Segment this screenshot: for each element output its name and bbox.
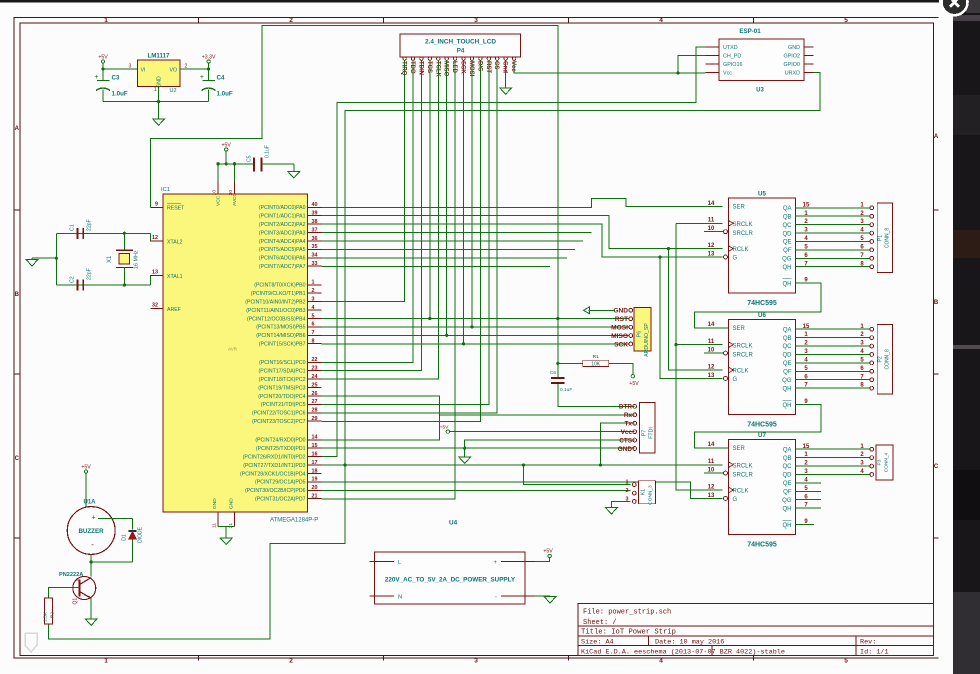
- svg-text:2.4_INCH_TOUCH_LCD: 2.4_INCH_TOUCH_LCD: [425, 39, 496, 46]
- svg-text:(PCINT20/TDO)PC4: (PCINT20/TDO)PC4: [258, 394, 305, 400]
- power flag +5V (MCU supply): [222, 142, 232, 164]
- svg-text:(PCINT19/TMS)PC3: (PCINT19/TMS)PC3: [258, 385, 305, 391]
- svg-text:TIRQ: TIRQ: [401, 61, 407, 76]
- svg-text:4: 4: [312, 305, 315, 311]
- svg-text:U1A: U1A: [84, 500, 97, 506]
- svg-text:MISO: MISO: [611, 333, 628, 340]
- svg-text:74HC595: 74HC595: [747, 541, 777, 548]
- svg-text:20: 20: [312, 485, 318, 491]
- ground (U1): [220, 538, 232, 545]
- svg-text:(PCINT28/XCK1/OC1B)PD4: (PCINT28/XCK1/OC1B)PD4: [240, 471, 306, 477]
- svg-text:(PCINT7/ADC7)PA7: (PCINT7/ADC7)PA7: [259, 264, 306, 270]
- svg-text:A: A: [934, 134, 939, 140]
- svg-text:R1: R1: [593, 354, 599, 360]
- svg-text:1: 1: [154, 87, 157, 93]
- svg-text:P1: P1: [878, 235, 884, 241]
- svg-text:0.1uF: 0.1uF: [560, 387, 572, 393]
- svg-text:RCLK: RCLK: [733, 488, 749, 494]
- svg-text:11: 11: [212, 523, 218, 528]
- svg-text:BUZZER: BUZZER: [78, 528, 104, 535]
- svg-text:P2: P2: [878, 356, 884, 362]
- svg-text:QE: QE: [783, 240, 792, 246]
- wire buzzer minus node: [90, 554, 133, 576]
- connector P2 CONN_8: [870, 324, 893, 394]
- svg-text:U3: U3: [756, 88, 764, 94]
- wire LCD TCS: [428, 60, 431, 320]
- svg-text:Rx: Rx: [624, 412, 633, 419]
- svg-text:27: 27: [312, 399, 318, 405]
- svg-text:(PCINT21/TDI)PC5: (PCINT21/TDI)PC5: [261, 402, 306, 408]
- svg-text:U2: U2: [170, 88, 177, 94]
- svg-text:12: 12: [708, 364, 715, 370]
- wire supply minus output: [535, 595, 550, 597]
- svg-text:TDO: TDO: [409, 61, 415, 74]
- IC U1 ATMEGA1284P-P body: [161, 187, 318, 524]
- svg-text:RCLK: RCLK: [733, 368, 749, 374]
- svg-text:Vcc: Vcc: [621, 429, 633, 436]
- svg-text:CTS: CTS: [619, 437, 633, 444]
- connector P6 ARDUINO_SP: [629, 308, 651, 357]
- wire Q1 emitter ground: [90, 599, 92, 619]
- svg-text:1: 1: [104, 17, 108, 24]
- svg-text:11: 11: [708, 459, 715, 465]
- wires P2 bank outputs: [796, 329, 870, 388]
- svg-text:D1: D1: [122, 534, 128, 541]
- buzzer U1A: [67, 500, 115, 555]
- wire MISO row PB6: [322, 334, 630, 336]
- capacitor C6 0.1uF (reset): [550, 370, 572, 393]
- wire PD1 to FTDI GND: [322, 447, 635, 450]
- svg-text:17: 17: [312, 460, 318, 466]
- svg-text:QH: QH: [783, 386, 792, 392]
- svg-text:(PCINT4/ADC4)PA4: (PCINT4/ADC4)PA4: [259, 239, 306, 245]
- svg-text:13: 13: [152, 270, 158, 276]
- svg-text:VCC: VCC: [216, 195, 222, 206]
- svg-text:13: 13: [708, 251, 715, 257]
- svg-text:B: B: [934, 300, 939, 306]
- crystal X1 16 MHz: [107, 233, 140, 285]
- svg-text:5: 5: [844, 17, 848, 24]
- svg-text:U6: U6: [758, 312, 766, 319]
- svg-text:Vcc: Vcc: [510, 61, 516, 72]
- svg-text:SRCLR: SRCLR: [733, 231, 754, 237]
- svg-text:(PCINT0/ADC0)PA0: (PCINT0/ADC0)PA0: [259, 205, 306, 211]
- svg-text:MOSI: MOSI: [611, 324, 628, 331]
- svg-text:22pF: 22pF: [87, 219, 93, 231]
- svg-text:33: 33: [312, 261, 318, 267]
- svg-text:PN2222A: PN2222A: [59, 572, 83, 578]
- svg-text:QH: QH: [783, 523, 792, 529]
- svg-text:(PCINT1/ADC1)PA1: (PCINT1/ADC1)PA1: [259, 214, 306, 220]
- svg-text:Rev:: Rev:: [860, 639, 876, 647]
- capacitor C1 22pF: [70, 219, 93, 239]
- svg-text:-: -: [91, 540, 94, 549]
- svg-text:MISO: MISO: [443, 61, 449, 77]
- resistor R1 10K: [583, 354, 633, 375]
- svg-text:(PCINT26/RXD1/INT0)PD2: (PCINT26/RXD1/INT0)PD2: [243, 454, 306, 460]
- wire PA0 to U5 SER: [322, 199, 723, 208]
- pin names U5 outputs: [782, 206, 792, 271]
- svg-text:14: 14: [708, 201, 715, 207]
- svg-text:QA: QA: [783, 206, 792, 212]
- svg-text:SER: SER: [733, 446, 746, 452]
- pin numbers U1 right side: [312, 202, 318, 499]
- connector K1 CONN_3: [632, 481, 655, 505]
- svg-text:16: 16: [312, 451, 318, 457]
- power flag +5V (FTDI Vcc): [440, 425, 635, 434]
- wire LCD TDO: [322, 60, 414, 362]
- svg-text:SRCLK: SRCLK: [733, 463, 753, 469]
- svg-text:RCLK: RCLK: [733, 247, 749, 253]
- svg-text:15: 15: [803, 202, 810, 208]
- svg-text:39: 39: [312, 211, 318, 217]
- svg-text:GND: GND: [613, 308, 628, 315]
- svg-text:RESET: RESET: [167, 206, 185, 212]
- svg-text:9: 9: [155, 202, 158, 208]
- wire regulator input: [101, 67, 137, 70]
- pin stubs U1 top and bottom: [212, 182, 235, 529]
- svg-text:12: 12: [152, 235, 158, 241]
- top window bar: [0, 0, 939, 3]
- svg-text:19: 19: [312, 477, 318, 483]
- svg-text:10: 10: [212, 190, 218, 196]
- capacitor C3 1.0uF: [94, 69, 127, 102]
- svg-text:1.0uF: 1.0uF: [112, 91, 128, 98]
- svg-text:(PCINT2/ADC2)PA2: (PCINT2/ADC2)PA2: [259, 222, 306, 228]
- svg-text:2: 2: [312, 288, 315, 294]
- svg-text:11: 11: [708, 218, 715, 224]
- svg-text:VO: VO: [170, 68, 178, 74]
- svg-text:13: 13: [708, 373, 715, 379]
- svg-text:10: 10: [708, 226, 715, 232]
- wire LCD Vcc to ESP Vcc: [514, 60, 705, 73]
- svg-text:QG: QG: [782, 378, 792, 384]
- svg-text:(PCINT30/OC2B/ICP)PD6: (PCINT30/OC2B/ICP)PD6: [245, 488, 306, 494]
- wire buzzer plus to diode: [98, 518, 133, 529]
- wire PA3 row: [322, 232, 592, 234]
- svg-text:UTXD: UTXD: [723, 45, 738, 51]
- svg-text:(PCINT11/AIN1/OC0)PB3: (PCINT11/AIN1/OC0)PB3: [246, 308, 305, 314]
- pin names U1 port C: [252, 360, 306, 425]
- wire LCD CS: [322, 60, 498, 413]
- svg-text:74HC595: 74HC595: [747, 300, 777, 307]
- svg-text:10K: 10K: [591, 362, 601, 368]
- pin numbers K1: [626, 480, 629, 503]
- transistor Q1 PN2222A: [59, 572, 96, 605]
- svg-text:K1: K1: [641, 489, 647, 495]
- connector P4 2.4_INCH_TOUCH_LCD: [400, 34, 521, 60]
- svg-text:ESP-01: ESP-01: [739, 28, 761, 35]
- svg-text:16 MHz: 16 MHz: [134, 250, 140, 269]
- svg-text:IC1: IC1: [161, 187, 170, 193]
- svg-text:QE: QE: [783, 361, 792, 367]
- diode D1: [122, 526, 144, 562]
- svg-text:C: C: [15, 456, 20, 462]
- svg-text:G: G: [733, 497, 738, 503]
- svg-text:GPIO0: GPIO0: [784, 62, 800, 68]
- power flag +5V (buzzer): [81, 464, 91, 507]
- svg-text:QF: QF: [783, 248, 792, 254]
- wire U6 QH' cascade to U7 SER: [695, 405, 821, 448]
- svg-text:B: B: [15, 292, 20, 298]
- svg-text:11: 11: [708, 339, 715, 345]
- wire PA4 row: [322, 240, 584, 242]
- wire PA5 row: [322, 248, 576, 250]
- svg-text:2: 2: [289, 17, 293, 24]
- wire LCD RST: [322, 60, 489, 404]
- svg-text:1: 1: [626, 480, 629, 486]
- pin numbers U6 left: [708, 322, 809, 405]
- svg-text:C5: C5: [247, 155, 253, 162]
- svg-text:G: G: [733, 255, 738, 261]
- svg-text:C4: C4: [217, 75, 225, 82]
- wire SCK row PB7: [322, 343, 630, 345]
- svg-text:+5V: +5V: [629, 381, 639, 387]
- svg-text:10: 10: [708, 348, 715, 354]
- svg-text:DIODE: DIODE: [138, 526, 144, 543]
- svg-text:QG: QG: [782, 498, 792, 504]
- svg-text:QF: QF: [783, 490, 792, 496]
- wire PC4 to FTDI Rx: [322, 396, 635, 440]
- svg-text:15: 15: [803, 324, 810, 330]
- wire K1 pin1 drop: [523, 465, 630, 485]
- svg-text:31: 31: [228, 523, 234, 529]
- ground (Q1): [85, 619, 97, 626]
- ground (C5): [288, 172, 300, 179]
- svg-text:37: 37: [312, 227, 318, 233]
- svg-text:4: 4: [659, 658, 663, 665]
- svg-text:D/C: D/C: [476, 61, 482, 72]
- svg-text:QB: QB: [783, 456, 792, 462]
- module U3 ESP-01: [719, 28, 804, 94]
- svg-text:ATMEGA1284P-P: ATMEGA1284P-P: [270, 518, 318, 524]
- power flag +5V (R1 pullup): [629, 375, 639, 388]
- connector P1 CONN_8: [870, 203, 893, 273]
- svg-text:8: 8: [312, 339, 315, 345]
- ground (supply): [544, 597, 556, 604]
- svg-text:6: 6: [312, 322, 315, 328]
- svg-text:(PCINT13/MOSI)PB5: (PCINT13/MOSI)PB5: [256, 325, 305, 331]
- svg-text:28: 28: [312, 408, 318, 414]
- svg-text:(PCINT25/TXD0)PD1: (PCINT25/TXD0)PD1: [256, 446, 306, 452]
- wire U1 ground: [218, 527, 235, 538]
- svg-text:QD: QD: [783, 231, 793, 237]
- svg-text:(PCINT17/SDA)PC1: (PCINT17/SDA)PC1: [259, 369, 306, 375]
- power flag +5V (regulator input): [98, 54, 108, 69]
- svg-text:23: 23: [312, 366, 318, 372]
- pin numbers U7 outputs: [803, 444, 865, 509]
- ground (crystal): [26, 260, 38, 267]
- svg-text:+5V: +5V: [543, 549, 553, 555]
- wire PD6 to K1 pin2: [322, 489, 631, 491]
- svg-text:25: 25: [312, 382, 318, 388]
- svg-text:4: 4: [659, 17, 663, 24]
- svg-text:P3: P3: [877, 459, 883, 465]
- wire LCD MISO: [445, 60, 448, 337]
- svg-text:QE: QE: [783, 481, 792, 487]
- svg-text:+: +: [200, 74, 204, 81]
- svg-text:(PCINT27/TXD1/INT1)PD3: (PCINT27/TXD1/INT1)PD3: [243, 463, 305, 469]
- svg-text:LED: LED: [451, 61, 457, 74]
- wire LCD ground pin: [505, 60, 507, 88]
- wire ESP URXD to PD3 and buzzer: [48, 72, 820, 639]
- svg-text:G: G: [733, 377, 738, 383]
- svg-text:12: 12: [708, 484, 715, 490]
- pin numbers U2: [129, 64, 188, 94]
- svg-text:QH: QH: [783, 506, 792, 512]
- svg-text:(PCINT22/TOSC1)PC6: (PCINT22/TOSC1)PC6: [252, 411, 306, 417]
- pin labels P6: [611, 308, 628, 349]
- svg-text:3: 3: [312, 296, 315, 302]
- svg-text:36: 36: [312, 236, 318, 242]
- wire U7 QH' stub: [796, 524, 815, 526]
- svg-text:13: 13: [708, 493, 715, 499]
- svg-text:QD: QD: [783, 353, 793, 359]
- svg-text:MOSI: MOSI: [468, 61, 474, 77]
- svg-text:29: 29: [312, 416, 318, 422]
- svg-text:21: 21: [312, 494, 318, 500]
- svg-text:U7: U7: [758, 432, 766, 439]
- svg-text:FTDI: FTDI: [649, 427, 655, 439]
- svg-text:GND: GND: [788, 45, 800, 51]
- svg-text:2: 2: [289, 658, 293, 665]
- svg-text:(PCINT18/TCK)PC2: (PCINT18/TCK)PC2: [259, 377, 306, 383]
- svg-text:34: 34: [312, 253, 318, 259]
- svg-text:QA: QA: [783, 447, 792, 453]
- wire LCD MOSI: [470, 60, 473, 328]
- svg-text:Title: IoT Power Strip: Title: IoT Power Strip: [581, 629, 676, 637]
- svg-text:QC: QC: [783, 344, 793, 350]
- wire MOSI row PB5: [322, 326, 630, 328]
- svg-text:+: +: [493, 560, 497, 566]
- svg-text:24: 24: [312, 374, 318, 380]
- svg-text:VI: VI: [141, 68, 146, 74]
- svg-text:38: 38: [312, 219, 318, 225]
- svg-text:Id: 1/1: Id: 1/1: [860, 649, 889, 657]
- svg-text:SER: SER: [733, 205, 746, 211]
- svg-text:QH: QH: [783, 403, 792, 409]
- svg-text:26: 26: [312, 391, 318, 397]
- svg-text:File: power_strip.sch: File: power_strip.sch: [583, 609, 671, 617]
- svg-text:R2: R2: [50, 612, 56, 618]
- svg-text:10: 10: [708, 468, 715, 474]
- pin names U1 port B: [245, 283, 305, 348]
- connector P3 CONN_4: [870, 445, 893, 480]
- wire PA2 to G chain: [322, 224, 723, 378]
- svg-text:+5V: +5V: [222, 142, 232, 148]
- svg-text:C2: C2: [70, 276, 76, 283]
- svg-text:3: 3: [129, 64, 132, 70]
- svg-text:2: 2: [626, 488, 629, 494]
- svg-text:0.1uF: 0.1uF: [265, 145, 271, 158]
- pin numbers U5 left: [708, 201, 809, 284]
- pin numbers U7 left: [708, 442, 809, 525]
- svg-text:LM1117: LM1117: [147, 53, 170, 60]
- svg-text:TCS: TCS: [426, 61, 432, 73]
- svg-text:QH: QH: [783, 265, 792, 271]
- svg-text:1.0uF: 1.0uF: [217, 91, 233, 98]
- wire PA6 row: [322, 257, 568, 259]
- svg-text:+5V: +5V: [81, 464, 91, 470]
- svg-text:P6: P6: [637, 331, 643, 337]
- svg-text:U5: U5: [758, 191, 766, 198]
- svg-text:220V_AC_TO_5V_2A_DC_POWER_SUPP: 220V_AC_TO_5V_2A_DC_POWER_SUPPLY: [385, 577, 516, 584]
- right desktop dark strip: [953, 0, 980, 674]
- wire regulator output: [180, 67, 210, 70]
- wire PD5 to U7 G: [322, 482, 723, 499]
- wire PD3 TXD1 row: [322, 463, 723, 466]
- svg-text:QF: QF: [783, 370, 792, 376]
- svg-text:(PCINT31/OC2A)PD7: (PCINT31/OC2A)PD7: [255, 497, 306, 503]
- IC U5 74HC595: [704, 191, 796, 308]
- power flag +3.3V: [202, 54, 216, 69]
- pin names U7 outputs: [782, 447, 792, 512]
- wire MCU supply rail: [216, 162, 254, 181]
- wire crystal top net: [56, 232, 163, 259]
- svg-text:22: 22: [312, 357, 318, 363]
- svg-text:CONN_4: CONN_4: [884, 452, 890, 472]
- svg-text:DTR: DTR: [619, 404, 633, 411]
- svg-text:(PCINT6/ADC6)PA6: (PCINT6/ADC6)PA6: [259, 256, 306, 262]
- svg-text:GPIO16: GPIO16: [723, 62, 742, 68]
- svg-text:KiCad E.D.A. eeschema (2013-0: KiCad E.D.A. eeschema (2013-07-07 BZR 40…: [581, 649, 785, 657]
- wire crystal ground stub: [32, 258, 56, 259]
- pin stubs U3: [706, 47, 814, 72]
- svg-text:(PCINT23/TOSC2)PC7: (PCINT23/TOSC2)PC7: [252, 419, 306, 425]
- svg-text:X1: X1: [107, 255, 113, 263]
- svg-text:P7: P7: [642, 430, 648, 436]
- pin labels P7: [618, 404, 633, 453]
- pin numbers P2 bank outputs: [803, 324, 865, 389]
- svg-text:GPIO2: GPIO2: [784, 53, 800, 59]
- svg-text:15: 15: [312, 443, 318, 449]
- svg-text:1.5K: 1.5K: [43, 611, 49, 622]
- wire PA1 to RCLK chain: [322, 216, 723, 370]
- svg-text:(PCINT8/T0/XCK)PB0: (PCINT8/T0/XCK)PB0: [254, 283, 305, 289]
- wire PB4 row to P6 RST: [322, 317, 630, 320]
- svg-text:22pF: 22pF: [87, 268, 93, 280]
- title block: [578, 603, 934, 656]
- capacitor C4 1.0uF: [200, 69, 233, 102]
- svg-text:N: N: [398, 595, 402, 601]
- svg-text:(PCINT3/ADC3)PA3: (PCINT3/ADC3)PA3: [259, 230, 306, 236]
- svg-text:GND: GND: [212, 498, 218, 509]
- svg-text:XTAL2: XTAL2: [167, 240, 183, 246]
- wire FTDI CTS ground: [465, 440, 635, 457]
- svg-text:CONN_8: CONN_8: [885, 228, 891, 249]
- wire LCD TCLK: [322, 60, 439, 379]
- wire LCD SCK: [462, 60, 465, 345]
- svg-text:+: +: [94, 74, 98, 81]
- svg-text:A: A: [15, 126, 20, 132]
- svg-text:-: -: [495, 595, 497, 601]
- wire RESET net: [151, 26, 635, 407]
- wire regulator ground rail: [103, 87, 209, 119]
- pin numbers U1 left side: [152, 202, 158, 309]
- svg-text:U4: U4: [449, 520, 458, 527]
- svg-text:1: 1: [312, 280, 315, 286]
- pin stubs U1 left side: [151, 207, 163, 308]
- svg-text:SRCLK: SRCLK: [733, 222, 753, 228]
- IC U6 74HC595: [704, 312, 796, 429]
- svg-text:QB: QB: [783, 336, 792, 342]
- svg-text:(PCINT16/SCL)PC0: (PCINT16/SCL)PC0: [259, 360, 306, 366]
- ground (regulator): [153, 119, 165, 126]
- svg-text:40: 40: [312, 202, 318, 208]
- pin numbers P1 bank outputs: [803, 202, 865, 267]
- svg-text:GND: GND: [157, 76, 163, 88]
- svg-text:SRCLK: SRCLK: [733, 343, 753, 349]
